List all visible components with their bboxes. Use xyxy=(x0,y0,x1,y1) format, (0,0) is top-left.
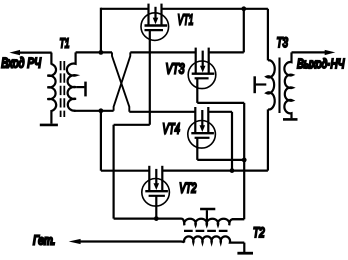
wire Гет line xyxy=(80,240,182,242)
svg-text:Выход·НЧ: Выход·НЧ xyxy=(297,56,345,71)
wire top rail right segment xyxy=(162,8,268,10)
wire VT4 source right xyxy=(208,111,232,113)
svg-text:Вход РЧ: Вход РЧ xyxy=(1,56,42,71)
wire gate bus right down xyxy=(243,103,245,219)
output arrowhead pointing right xyxy=(325,50,336,55)
wire riser to top rail xyxy=(243,9,245,53)
wire T3 primary bottom riser xyxy=(267,109,269,170)
wire gate bus down left side xyxy=(112,125,114,219)
wire input arrow line xyxy=(19,51,52,53)
svg-text:VT1: VT1 xyxy=(178,12,194,29)
wire crossover BR to VT4 left lead xyxy=(129,111,195,113)
wire T3 primary tap xyxy=(256,83,266,85)
svg-text:VT3: VT3 xyxy=(166,60,185,77)
T3 core solid line xyxy=(278,58,280,114)
node H2 junction dot xyxy=(230,168,235,173)
transistor VT3 xyxy=(188,48,216,103)
chassis bar at T3 tap xyxy=(253,76,256,93)
transformer T1 primary winding xyxy=(47,64,56,124)
wire W2 gate link left xyxy=(114,124,150,126)
T1 core dashed lines xyxy=(61,61,65,117)
input arrowhead pointing left xyxy=(9,50,20,55)
transistor VT4 xyxy=(188,107,216,160)
chassis bar at T1 tap xyxy=(84,82,87,97)
wire VT3 source to rail riser xyxy=(209,51,244,53)
svg-text:Т3: Т3 xyxy=(277,35,289,50)
wire T1 secondary bottom to crossover xyxy=(74,110,114,112)
wire T1 secondary top to crossover xyxy=(76,51,112,53)
node B junction dot xyxy=(99,108,104,113)
wire VT4 gate to H1 xyxy=(197,159,244,161)
wire top rail left segment xyxy=(101,8,149,10)
node VT2 gate junction dot xyxy=(154,216,159,221)
wire crossover TR to VT3 left lead xyxy=(130,51,195,53)
transistor VT2 xyxy=(142,166,170,219)
transformer T3 primary winding xyxy=(266,60,274,109)
node A junction dot xyxy=(99,50,104,55)
wire input arrow vertical into T1 xyxy=(50,53,52,65)
ground T2 xyxy=(237,252,253,255)
crossover X top-left to bottom-right xyxy=(112,52,129,111)
chassis bar at T2 tap xyxy=(200,208,215,211)
wire gate bus to T2 left end xyxy=(114,218,182,220)
wire VT1 gate lead down xyxy=(149,30,151,125)
node rail junction dot xyxy=(241,6,246,11)
wire to VT2 left lead xyxy=(101,170,149,172)
wire VT3 gate run right xyxy=(197,102,244,104)
transformer T2 bottom winding xyxy=(181,236,244,242)
wire rail left corner drop to node A xyxy=(100,8,102,53)
transformer T1 secondary winding xyxy=(67,52,76,110)
wire gate bus right to T2 right end xyxy=(232,218,244,220)
wire node B drop to VT2 drain wire xyxy=(100,111,102,171)
transformer T2 top winding xyxy=(182,219,245,226)
Гет arrowhead pointing left xyxy=(69,239,81,244)
svg-text:Т1: Т1 xyxy=(60,36,70,51)
svg-text:VT4: VT4 xyxy=(162,120,180,137)
svg-text:Гет.: Гет. xyxy=(33,234,56,248)
wire T1 secondary center tap xyxy=(76,86,84,88)
node H1 junction dot xyxy=(242,158,247,163)
transformer T3 secondary winding xyxy=(284,52,292,118)
wire VT2 source to T3 primary bottom xyxy=(162,170,268,172)
T2 core dashed line xyxy=(184,230,229,232)
ground T1 primary xyxy=(40,124,58,127)
wire T2 tap stub xyxy=(206,210,208,225)
transistor VT1 xyxy=(141,4,169,41)
svg-text:VT2: VT2 xyxy=(179,180,197,195)
crossover X top-right to bottom-left xyxy=(114,52,131,110)
wire T2 bottom right drop xyxy=(243,243,245,252)
wire output arrow line xyxy=(292,51,326,53)
ground T3 secondary xyxy=(283,118,298,121)
svg-text:Т2: Т2 xyxy=(253,225,265,240)
wire T3 primary top lead xyxy=(267,9,269,61)
wire VT4 source drop to H2 xyxy=(231,112,233,171)
